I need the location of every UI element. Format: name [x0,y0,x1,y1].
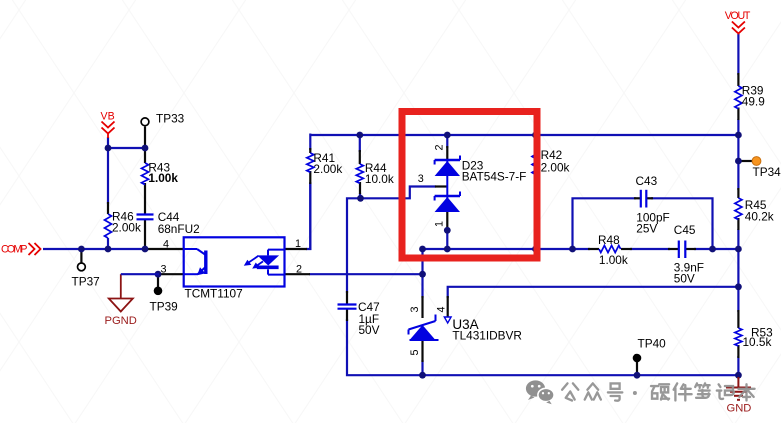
node R44 bottom [357,195,364,202]
wire top rail y=134.5 [310,134,738,136]
node TL431 bottom [419,372,426,379]
node C43 right [709,246,716,253]
pin stub TP33 [144,127,146,149]
svg-text:2.00k: 2.00k [541,161,570,175]
svg-text:3: 3 [161,263,167,275]
pin stub opto pin1 [285,248,308,250]
pin stub C47 bottom [346,309,348,322]
pin stub opto pin3 [158,273,184,275]
testpoint TP39 [154,287,163,296]
node D23 top [444,132,451,139]
svg-text:TCMT1107: TCMT1107 [185,287,243,301]
ground PGND [109,274,133,311]
pin stub R48 left [588,248,599,250]
wire R41 top stub [309,134,311,151]
svg-text:GND: GND [727,403,752,415]
wire R41 bottom [309,182,311,250]
node R46 top rail [105,246,112,253]
wire opto pin2 to TL431 node [309,273,423,275]
wire R44 top stub [359,135,361,152]
pin stub R43-C44 [144,183,146,214]
char bi [695,383,709,397]
char ji [717,384,734,399]
pin stub R42 bottom [534,173,536,186]
svg-text:C43: C43 [636,174,658,188]
node rail mid right [735,246,742,253]
wire R39 bottom to rail [737,119,739,190]
resistor R46 [105,214,112,238]
pin stub R39 bottom [737,108,739,121]
pin stub TP34 [738,160,752,162]
svg-text:3: 3 [409,306,421,312]
testpoint TP37 [78,263,86,271]
testpoint TP34 [752,157,761,166]
optocoupler LED [268,250,285,275]
pin stub C45 left [668,248,679,250]
svg-text:10.0k: 10.0k [365,172,394,186]
capacitor C45 plates [678,241,680,259]
svg-text:C45: C45 [674,223,696,237]
pin stub R53 bottom [737,345,739,358]
port COMP arrow [29,243,41,255]
pin stub R41 top [309,148,311,153]
capacitor C43 plates [640,190,642,208]
svg-text:BAT54S-7-F: BAT54S-7-F [462,170,527,184]
svg-text:TL431IDBVR: TL431IDBVR [452,329,522,343]
wire R53 bottom [737,356,739,377]
pin stub TL431 ref [447,296,449,317]
pin stub C44 bottom [144,220,146,251]
node COMP/TP37 [78,246,85,253]
pin stub R43 top [144,150,146,163]
svg-text:50V: 50V [674,271,695,285]
wire D23 pin3 jog [361,187,437,199]
svg-text:R48: R48 [598,233,620,247]
pin stub TL431 cathode [421,296,423,318]
node mid rail left [419,246,426,253]
wire U3A pin4 top rail y=286.8 [448,287,739,298]
node D23 pin1 [444,227,451,234]
pin stub C43 left [634,197,641,199]
char ying [651,384,669,399]
pin stub D23 pin2 [446,146,448,159]
svg-text:PGND: PGND [105,315,137,327]
wire mid rail right of R48 [630,248,670,250]
node R42 bottom [532,246,539,253]
pin stub D23 pin3 [435,185,447,187]
node R44 top [356,132,363,139]
wire R44 bottom stub [359,193,361,198]
pin stub D23 pin1 [446,212,448,230]
svg-text:COMP: COMP [1,244,28,256]
svg-text:40.2k: 40.2k [745,210,774,224]
svg-text:TP40: TP40 [638,337,667,351]
wire C47 bottom to bottom rail [347,319,423,375]
optocoupler emitter arrow [197,267,205,275]
char gong [562,383,578,400]
diode D23 bottom (schottky) [435,159,460,212]
wechat icon [526,380,554,404]
node GND rail [735,372,742,379]
svg-text:4: 4 [435,306,447,312]
svg-text:1.00k: 1.00k [148,171,178,185]
wire R44 junction to C47 branch [347,198,361,293]
char hao [608,383,622,400]
char zhong [585,383,601,399]
svg-text:2.00k: 2.00k [112,220,141,234]
wire C43 branch right leg [651,198,713,250]
testpoint TP40 [633,354,642,363]
char jian [674,383,692,400]
pin stub TP40 [636,361,638,375]
testpoint TP33 [141,118,149,126]
svg-text:VOUT: VOUT [725,10,751,22]
resistor R43 [142,163,149,185]
svg-text:4: 4 [163,239,169,251]
resistor R42 [532,151,539,175]
pin stub C43 right [647,197,654,199]
pin stub TL431 anode [421,341,423,362]
svg-text:1: 1 [434,221,446,227]
wire opto pin1 riser x=310 [306,183,310,249]
node TP34 [735,158,742,165]
svg-text:TP37: TP37 [72,275,100,289]
pin stub C47 top [346,291,348,305]
pin stub R44 top [359,150,361,164]
wire R46 bottom stub [107,238,109,250]
wire D23 top stub [446,135,448,148]
pin stub R46 top [107,202,109,214]
pin stub C45 right [686,248,697,250]
capacitor C44 plates [137,213,154,215]
wire C43 branch left riser [573,198,637,250]
wire COMP main horizontal y=249 [43,248,146,250]
wire D23 pin1 to mid rail [446,230,448,249]
resistor R39 [735,86,742,109]
node R42 top [532,132,539,139]
wire R45 bottom [737,229,739,312]
wire mid rail y=249 [423,248,591,250]
pin stub R44 bottom [359,182,361,194]
node rail pin4 [735,283,742,290]
pin stub R45 top [737,188,739,198]
wire TP33 vertical upper x=145 [144,147,146,150]
svg-text:TP39: TP39 [150,300,178,314]
resistor R48 (horizontal) [599,246,621,253]
svg-text:10.5k: 10.5k [743,335,772,349]
power VOUT [732,22,745,34]
node TP39 [155,271,162,278]
pin stub R39 top [737,73,739,86]
wire VB-TP33 horizontal y=148 [107,147,146,149]
wire R42 top stub [534,135,536,145]
svg-text:TP33: TP33 [156,112,185,126]
resistor R41 [307,153,314,172]
resistor R45 [735,198,742,220]
svg-text:2.00k: 2.00k [313,162,342,176]
optocoupler light arrows [244,256,263,269]
svg-text:1: 1 [295,238,301,250]
pin stub TP39 [157,274,159,287]
wire bottom rail y=375.2 [423,374,739,376]
svg-text:3: 3 [418,173,424,185]
pin stub R48 right [621,248,632,250]
wire TL431 anode to bottom rail [421,360,423,376]
optocoupler U2 box TCMT1107 [184,237,285,286]
pin stub opto pin2 [285,273,311,275]
pin stub R45 bottom [737,218,739,230]
node VB junction [105,145,112,152]
ground GND (bars) [726,377,751,400]
node TP33 junction [142,145,149,152]
svg-text:68nFU2: 68nFU2 [158,222,200,236]
wire R42 bottom [534,184,536,250]
node TP40 [634,372,641,379]
wire VOUT drop x=738.4 [737,34,739,75]
pin stub R42 top [534,143,536,151]
svg-text:1.00k: 1.00k [599,253,628,267]
node rail top right [735,132,742,139]
char ben [738,384,754,400]
resistor R44 [356,164,363,183]
svg-text:2: 2 [296,263,302,275]
svg-text:2: 2 [434,144,446,150]
diode D23 top (schottky) [435,156,460,177]
wire mid rail right of C45 [694,248,738,250]
U3A ref arrowhead [444,317,451,323]
node opto pin2 [419,271,426,278]
svg-text:5: 5 [409,349,421,355]
middle dot [633,391,637,395]
optocoupler phototransistor [184,249,206,274]
shunt regulator U3A TL431 [409,315,452,341]
watermark text 公众号·硬件笔记本 (drawn strokes) [562,383,755,400]
svg-text:25V: 25V [636,222,657,236]
resistor R53 [735,328,742,346]
svg-text:50V: 50V [359,323,380,337]
wire TL431 node vertical x=422.5 [421,248,423,298]
wire VB vertical x=108 [107,137,109,204]
power VB [102,122,115,139]
node C43 left [569,246,576,253]
capacitor C47 plates [338,303,357,305]
node C44 bottom rail [142,246,149,253]
svg-text:VB: VB [101,111,115,123]
pin stub R53 top [737,310,739,328]
svg-text:49.9: 49.9 [742,95,765,109]
wire opto pin3 to PGND [121,273,159,275]
svg-text:TP34: TP34 [753,165,781,179]
node D23 bottom [444,246,451,253]
pin stub opto pin4 [145,248,183,250]
pin stub TP37 [80,249,82,263]
pin stub R41 bottom [309,171,311,184]
